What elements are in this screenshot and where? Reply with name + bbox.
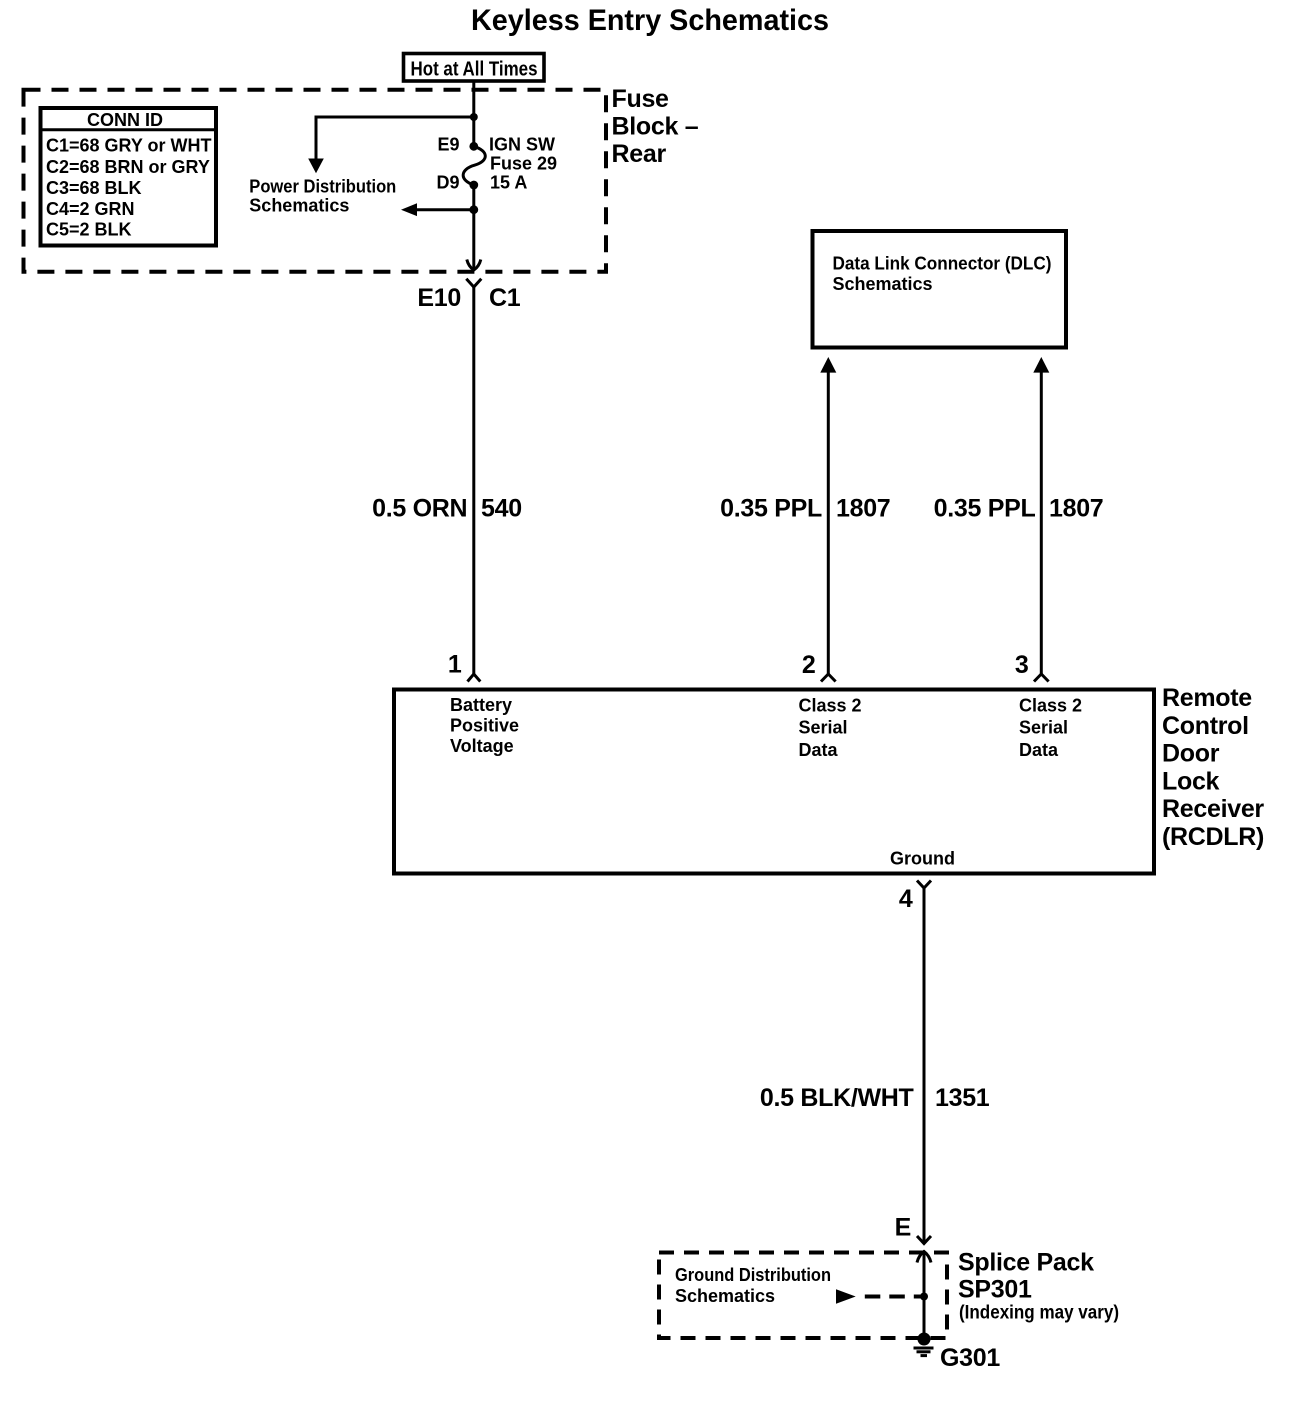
svg-text:0.5 ORN: 0.5 ORN (372, 495, 467, 523)
svg-text:Data: Data (799, 740, 839, 760)
arrow right toward splice from Ground Distribution (836, 1289, 856, 1303)
junction at ground distribution branch (920, 1293, 928, 1301)
junction at branch to Power Distribution arrow (469, 205, 478, 214)
svg-text:E9: E9 (437, 135, 459, 155)
dashed wire branch to junction (865, 1295, 924, 1299)
svg-text:C5=2 BLK: C5=2 BLK (46, 220, 132, 240)
svg-text:(Indexing may vary): (Indexing may vary) (959, 1303, 1119, 1324)
svg-text:Receiver: Receiver (1162, 795, 1264, 823)
svg-text:Fuse: Fuse (612, 85, 670, 113)
svg-text:Door: Door (1162, 740, 1220, 768)
wire 0.35 PPL 1807 (left) from DLC to RCDLR pin 2 (827, 372, 830, 674)
svg-text:Ground Distribution: Ground Distribution (675, 1265, 831, 1285)
svg-text:C3=68 BLK: C3=68 BLK (46, 178, 142, 198)
splice pack SP301 dashed enclosure (659, 1253, 947, 1339)
svg-text:540: 540 (481, 495, 522, 523)
svg-text:Data: Data (1019, 740, 1059, 760)
svg-text:0.5 BLK/WHT: 0.5 BLK/WHT (760, 1084, 914, 1112)
arrow up into DLC (right) (1033, 357, 1049, 373)
label Fuse Block - Rear (612, 85, 699, 168)
svg-text:1351: 1351 (935, 1084, 990, 1112)
svg-text:CONN ID: CONN ID (87, 110, 163, 130)
pin function label Battery Positive Voltage (450, 695, 519, 756)
connector pin 2 symbol at RCDLR (821, 674, 836, 682)
svg-text:2: 2 (802, 651, 816, 679)
wire below fuse (472, 185, 475, 231)
svg-text:1807: 1807 (836, 495, 890, 523)
svg-text:Serial: Serial (799, 718, 848, 738)
svg-text:Rear: Rear (612, 140, 667, 168)
wire branch to Power Distribution elbow (316, 117, 474, 161)
wire down to fuse block edge (472, 231, 475, 268)
svg-text:Keyless Entry Schematics: Keyless Entry Schematics (471, 4, 829, 37)
svg-text:Remote: Remote (1162, 684, 1252, 712)
svg-text:C2=68 BRN or GRY: C2=68 BRN or GRY (46, 157, 210, 177)
svg-text:Class 2: Class 2 (799, 696, 862, 716)
label Splice Pack SP301 (958, 1249, 1119, 1324)
svg-text:4: 4 (899, 885, 913, 913)
svg-text:Serial: Serial (1019, 718, 1068, 738)
RCDLR box (394, 690, 1154, 874)
pin function label Class 2 Serial Data (pin 2) (799, 696, 862, 761)
wire inside splice pack down to G301 (923, 1253, 926, 1339)
arrow left to Power Distribution Schematics (401, 203, 417, 216)
connector E symbol (Y) (917, 1236, 931, 1244)
connector pin 1 symbol at RCDLR (468, 674, 481, 682)
svg-text:0.35 PPL: 0.35 PPL (720, 495, 822, 523)
wire 0.35 PPL 1807 (right) from DLC to RCDLR pin 3 (1040, 372, 1043, 674)
svg-text:Block –: Block – (612, 113, 699, 141)
fuse block rear dashed enclosure (24, 90, 607, 272)
svg-text:E: E (895, 1214, 911, 1242)
junction at branch to Power Distribution (470, 113, 478, 121)
svg-text:Splice Pack: Splice Pack (958, 1249, 1094, 1277)
svg-text:Battery: Battery (450, 695, 512, 715)
node Hot at All Times (404, 54, 545, 82)
wire 0.5 BLK/WHT 1351 from RCDLR pin 4 to splice (923, 888, 926, 1244)
svg-text:Fuse 29: Fuse 29 (490, 154, 557, 174)
label Power Distribution Schematics (249, 177, 396, 216)
connector pin 3 symbol at RCDLR (1034, 674, 1049, 682)
svg-text:Schematics: Schematics (833, 274, 933, 294)
svg-text:Class 2: Class 2 (1019, 696, 1082, 716)
open arrow up at splice boundary (917, 1252, 931, 1263)
svg-text:Data Link Connector (DLC): Data Link Connector (DLC) (833, 254, 1052, 274)
wire from Hot at All Times down to fuse E9 (472, 81, 475, 146)
arrow up into DLC (left) (820, 357, 836, 373)
label Ground Distribution Schematics (675, 1265, 831, 1306)
wire branch left (410, 208, 474, 211)
svg-text:C1: C1 (489, 284, 521, 312)
svg-text:SP301: SP301 (958, 1276, 1032, 1304)
svg-text:1807: 1807 (1049, 495, 1103, 523)
svg-text:0.35 PPL: 0.35 PPL (934, 495, 1036, 523)
open arrow at fuse block boundary (467, 260, 481, 271)
svg-text:D9: D9 (436, 173, 459, 193)
svg-text:Schematics: Schematics (249, 196, 349, 216)
svg-text:C4=2 GRN: C4=2 GRN (46, 199, 135, 219)
value label IGN SW Fuse 29 15 A (489, 135, 557, 193)
svg-text:Ground: Ground (890, 849, 955, 869)
svg-text:Voltage: Voltage (450, 736, 514, 756)
svg-text:Schematics: Schematics (675, 1286, 775, 1306)
label Remote Control Door Lock Receiver (RCDLR) (1162, 684, 1264, 851)
svg-text:C1=68 GRY or WHT: C1=68 GRY or WHT (46, 136, 212, 156)
ground node dot G301 (918, 1333, 931, 1346)
fuse F29 terminal D9 (469, 181, 478, 190)
ground symbol G301 (914, 1348, 934, 1356)
wire 0.5 ORN 540 from E10 to RCDLR pin 1 (472, 287, 475, 674)
svg-text:E10: E10 (417, 284, 461, 312)
svg-text:Control: Control (1162, 712, 1249, 740)
svg-text:Hot at All Times: Hot at All Times (411, 59, 538, 81)
fuse F29 terminal E9 (469, 142, 478, 151)
svg-text:Lock: Lock (1162, 767, 1220, 795)
CONN ID table (39, 108, 217, 246)
pin function label Class 2 Serial Data (pin 3) (1019, 696, 1082, 761)
svg-text:Power Distribution: Power Distribution (249, 177, 396, 197)
connector pin 4 symbol at RCDLR (Y) (917, 881, 931, 889)
connector C1 at E10 (Y symbol) (466, 279, 481, 287)
svg-text:Positive: Positive (450, 716, 519, 736)
Data Link Connector (DLC) Schematics box (813, 231, 1067, 348)
arrow down to Power Distribution Schematics (308, 159, 324, 174)
svg-text:1: 1 (448, 651, 462, 679)
svg-text:15 A: 15 A (490, 173, 527, 193)
svg-text:(RCDLR): (RCDLR) (1162, 823, 1264, 851)
fuse F29 element (IGN SW Fuse 29 15 A) (463, 146, 485, 185)
svg-text:3: 3 (1015, 651, 1029, 679)
svg-text:G301: G301 (940, 1344, 1000, 1372)
svg-text:IGN SW: IGN SW (489, 135, 555, 155)
